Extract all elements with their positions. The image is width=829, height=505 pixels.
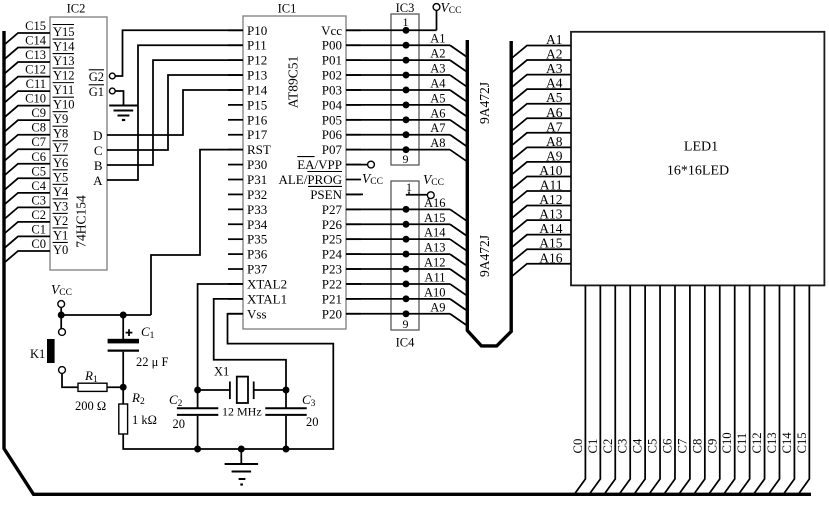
wire row A16 from bus to LED1 — [512, 264, 571, 277]
svg-text:XTAL2: XTAL2 — [247, 276, 287, 291]
IC3 resistor network 9A472J body — [391, 14, 419, 165]
junction crystal right — [283, 387, 290, 394]
IC1 left pin stub P12 — [228, 59, 243, 61]
svg-text:RST: RST — [247, 142, 271, 157]
IC1 right pin stub P27 — [346, 208, 361, 210]
svg-text:1 kΩ: 1 kΩ — [132, 413, 157, 427]
junction C3 bottom — [283, 446, 290, 453]
svg-text:IC2: IC2 — [67, 2, 86, 16]
svg-text:P32: P32 — [247, 187, 267, 202]
wire IC1 P27 through IC4 to row A16 — [346, 208, 450, 210]
svg-text:IC1: IC1 — [278, 2, 297, 16]
Vcc symbol at EA/VPP — [346, 164, 367, 166]
svg-text:A: A — [93, 173, 103, 188]
junction C2 bottom — [194, 446, 201, 453]
svg-text:C7: C7 — [31, 135, 46, 149]
svg-text:Y0: Y0 — [53, 243, 68, 257]
svg-text:LED1: LED1 — [684, 139, 718, 154]
svg-text:G2: G2 — [89, 70, 104, 84]
svg-text:C9: C9 — [31, 106, 46, 120]
IC3 pin dot row A6 — [403, 116, 410, 123]
svg-text:IC4: IC4 — [396, 336, 416, 350]
svg-text:A12: A12 — [539, 192, 562, 207]
wire Vss to ground rail — [228, 314, 334, 449]
svg-text:C15: C15 — [795, 432, 809, 453]
svg-text:A16: A16 — [539, 250, 562, 265]
capacitor C3 — [285, 390, 287, 408]
svg-text:A1: A1 — [430, 32, 445, 46]
IC4 pin dot row A10 — [403, 295, 410, 302]
svg-text:G1: G1 — [89, 85, 104, 99]
IC4 pin dot row A11 — [403, 280, 410, 287]
IC4 pin dot row A15 — [403, 221, 410, 228]
svg-text:200 Ω: 200 Ω — [75, 399, 106, 413]
IC1 right pin stub ALEPROG — [346, 179, 361, 181]
wire IC1 P25 through IC4 to row A14 — [346, 238, 450, 240]
svg-text:P14: P14 — [247, 82, 268, 97]
resistor R1 — [78, 383, 107, 391]
svg-text:16*16LED: 16*16LED — [667, 164, 729, 179]
svg-text:Y1: Y1 — [53, 228, 68, 242]
svg-text:P02: P02 — [322, 68, 342, 83]
svg-text:P27: P27 — [322, 202, 343, 217]
svg-text:A8: A8 — [546, 134, 563, 149]
svg-text:C12: C12 — [25, 63, 46, 77]
svg-text:C5: C5 — [31, 164, 46, 178]
svg-text:Y14: Y14 — [53, 40, 75, 54]
wire C10 from bus to IC2 pin Y10 — [4, 106, 50, 118]
wire IC1 P04 through IC3 to row A5 — [346, 104, 450, 106]
svg-text:Y3: Y3 — [53, 199, 68, 213]
IC4 pin dot row A12 — [403, 266, 410, 273]
svg-text:Y11: Y11 — [53, 83, 74, 97]
wire column C12 from LED1 to bottom bus — [754, 285, 765, 493]
wire IC1 P22 through IC4 to row A11 — [346, 283, 450, 285]
svg-text:C8: C8 — [690, 439, 704, 454]
wire column C1 from LED1 to bottom bus — [590, 285, 601, 493]
svg-text:VCC: VCC — [423, 172, 444, 188]
svg-text:A5: A5 — [430, 91, 445, 105]
svg-text:P25: P25 — [322, 232, 342, 247]
wire C5 from bus to IC2 pin Y5 — [4, 178, 50, 190]
IC3 pin dot row A3 — [403, 72, 410, 79]
wire IC2 B to IC1 — [107, 60, 243, 165]
wire IC1 P02 through IC3 to row A3 — [346, 74, 450, 76]
svg-text:A14: A14 — [539, 221, 562, 236]
wire G2 to IC1 P10 — [115, 30, 243, 76]
wire K1 to R1 — [62, 373, 78, 387]
svg-text:A12: A12 — [424, 256, 446, 270]
junction ground stub — [238, 446, 245, 453]
wire row A7 from bus to LED1 — [512, 133, 571, 146]
svg-text:A4: A4 — [546, 76, 563, 91]
wire slant A14 to bus — [450, 239, 467, 251]
svg-text:P17: P17 — [247, 127, 268, 142]
wire Vcc net: IC1 Vcc pin through IC3 pin1 to Vcc symbol — [346, 29, 437, 31]
wire C11 from bus to IC2 pin Y11 — [4, 91, 50, 103]
IC1 left pin stub P11 — [228, 44, 243, 46]
svg-text:D: D — [93, 128, 102, 143]
wire slant A7 to bus — [450, 135, 467, 147]
junction Vcc/K1/C1 — [58, 312, 65, 319]
wire Vcc node to RST net — [61, 314, 151, 316]
IC1 right pin stub P23 — [346, 268, 361, 270]
IC3 pin dot row A5 — [403, 101, 410, 108]
wire slant A10 to bus — [450, 299, 467, 311]
IC1 right pin stub PSEN — [346, 193, 361, 195]
LED1 16x16 LED matrix body — [571, 32, 824, 286]
svg-text:A11: A11 — [424, 270, 445, 284]
PSEN unconnected stub — [346, 193, 363, 195]
IC1 left pin stub P36 — [228, 253, 243, 255]
IC1 right pin stub P22 — [346, 283, 361, 285]
svg-text:Vss: Vss — [247, 306, 267, 321]
wire slant A3 to bus — [450, 75, 467, 87]
IC1 right pin stub P05 — [346, 119, 361, 121]
svg-text:P13: P13 — [247, 68, 267, 83]
svg-text:C4: C4 — [31, 179, 46, 193]
svg-text:P35: P35 — [247, 232, 267, 247]
wire RST to reset network — [151, 150, 243, 315]
svg-text:Y4: Y4 — [53, 185, 69, 199]
svg-text:C4: C4 — [631, 438, 645, 453]
wire IC4 pin1 to Vcc symbol — [406, 194, 427, 196]
svg-text:A10: A10 — [424, 285, 446, 299]
svg-text:A9: A9 — [546, 148, 563, 163]
svg-text:P15: P15 — [247, 97, 267, 112]
svg-text:20: 20 — [173, 417, 186, 431]
wire C15 from bus to IC2 pin Y15 — [4, 33, 50, 45]
IC1 left pin stub P32 — [228, 193, 243, 195]
svg-text:P23: P23 — [322, 262, 342, 277]
wire column C15 from LED1 to bottom bus — [799, 285, 810, 493]
wire C14 from bus to IC2 pin Y14 — [4, 48, 50, 60]
IC1 left pin stub XTAL1 — [228, 298, 243, 300]
svg-text:C3: C3 — [31, 193, 46, 207]
wire R1 to junction — [107, 386, 123, 388]
svg-text:R1: R1 — [84, 368, 98, 385]
IC1 AT89C51 body — [243, 16, 346, 329]
wire slant A16 to bus — [450, 209, 467, 221]
IC4 pin dot row A14 — [403, 236, 410, 243]
wire column C3 from LED1 to bottom bus — [620, 285, 631, 493]
svg-text:A4: A4 — [430, 76, 446, 90]
svg-text:P07: P07 — [322, 142, 343, 157]
svg-text:P06: P06 — [322, 127, 343, 142]
svg-text:P10: P10 — [247, 23, 267, 38]
IC1 left pin stub P15 — [228, 104, 243, 106]
svg-text:C11: C11 — [735, 433, 749, 454]
wire row A3 from bus to LED1 — [512, 75, 571, 88]
svg-text:C3: C3 — [616, 439, 630, 454]
svg-text:C11: C11 — [26, 77, 46, 91]
wire C4 from bus to IC2 pin Y4 — [4, 193, 50, 205]
IC1 right pin stub P20 — [346, 313, 361, 315]
wire C1 from bus to IC2 pin Y1 — [4, 236, 50, 248]
svg-text:74HC154: 74HC154 — [74, 195, 89, 248]
svg-text:Y12: Y12 — [53, 69, 75, 83]
IC1 right pin stub P04 — [346, 104, 361, 106]
svg-text:P33: P33 — [247, 202, 267, 217]
wire row A5 from bus to LED1 — [512, 104, 571, 117]
C1 polarity plus sign — [126, 332, 133, 334]
svg-text:Y2: Y2 — [53, 214, 68, 228]
svg-text:P30: P30 — [247, 157, 267, 172]
svg-text:P16: P16 — [247, 112, 268, 127]
wire row A10 from bus to LED1 — [512, 176, 571, 189]
wire C0 from bus to IC2 pin Y0 — [4, 251, 50, 263]
wire column C4 from LED1 to bottom bus — [635, 285, 646, 493]
IC1 right pin stub P00 — [346, 44, 361, 46]
crystal X1 12MHz — [198, 389, 230, 391]
IC1 right pin stub P24 — [346, 253, 361, 255]
wire IC2 D to IC1 — [107, 90, 243, 135]
wire C2 from bus to IC2 pin Y2 — [4, 222, 50, 234]
capacitor C1 (electrolytic 22uF) — [122, 315, 124, 339]
wire column C6 from LED1 to bottom bus — [664, 285, 675, 493]
svg-text:A8: A8 — [430, 136, 445, 150]
svg-text:C1: C1 — [141, 324, 155, 341]
IC4 pin dot row A13 — [403, 251, 410, 258]
IC3 pin dot row A4 — [403, 87, 410, 94]
wire row A14 from bus to LED1 — [512, 235, 571, 248]
IC1 left pin stub P35 — [228, 238, 243, 240]
svg-text:P26: P26 — [322, 217, 343, 232]
wire IC1 P23 through IC4 to row A12 — [346, 268, 450, 270]
ground rail wire — [198, 448, 286, 450]
svg-text:P01: P01 — [322, 53, 342, 68]
IC1 right pin stub P26 — [346, 223, 361, 225]
IC1 right pin stub Vcc — [346, 29, 361, 31]
svg-text:Y8: Y8 — [53, 127, 68, 141]
svg-text:A9: A9 — [430, 300, 445, 314]
wire column C2 from LED1 to bottom bus — [605, 285, 616, 493]
wire IC1 P20 through IC4 to row A9 — [346, 313, 450, 315]
svg-text:A5: A5 — [546, 90, 563, 105]
junction crystal left — [194, 387, 201, 394]
svg-text:ALE/PROG: ALE/PROG — [278, 172, 342, 187]
IC1 left pin stub P31 — [228, 179, 243, 181]
svg-text:X1: X1 — [214, 365, 229, 379]
wire IC1 P00 through IC3 to row A1 — [346, 44, 450, 46]
svg-text:Y15: Y15 — [53, 25, 75, 39]
wire slant A12 to bus — [450, 269, 467, 281]
wire row A2 from bus to LED1 — [512, 60, 571, 73]
svg-text:C7: C7 — [675, 439, 689, 454]
svg-text:P24: P24 — [322, 247, 343, 262]
wire slant A5 to bus — [450, 105, 467, 117]
IC2 pin G1 bubble — [109, 88, 115, 94]
svg-text:20: 20 — [306, 415, 319, 429]
wire row A1 from bus to LED1 — [512, 46, 571, 59]
svg-text:EA/VPP: EA/VPP — [297, 157, 342, 172]
svg-text:Y6: Y6 — [53, 156, 68, 170]
IC3 pin dot row A1 — [403, 42, 410, 49]
svg-text:Vcc: Vcc — [321, 23, 342, 38]
wire C7 from bus to IC2 pin Y7 — [4, 149, 50, 161]
wire IC1 P05 through IC3 to row A6 — [346, 119, 450, 121]
wire G1 to ground — [115, 91, 123, 105]
svg-text:C: C — [94, 143, 103, 158]
svg-text:VCC: VCC — [51, 282, 72, 298]
wire row A9 from bus to LED1 — [512, 162, 571, 175]
IC4 pin dot row A16 — [403, 206, 410, 213]
svg-text:P12: P12 — [247, 53, 267, 68]
svg-text:XTAL1: XTAL1 — [247, 291, 287, 306]
wire column C14 from LED1 to bottom bus — [784, 285, 795, 493]
IC1 left pin stub RST — [228, 149, 243, 151]
svg-text:C6: C6 — [31, 150, 46, 164]
svg-text:VCC: VCC — [362, 171, 383, 187]
IC1 left pin stub XTAL2 — [228, 283, 243, 285]
wire slant A8 to bus — [450, 150, 467, 162]
wire row A15 from bus to LED1 — [512, 249, 571, 262]
ground symbol — [240, 449, 242, 464]
junction C1 top — [120, 312, 127, 319]
wire XTAL1 to crystal right node — [214, 299, 286, 390]
svg-text:Y10: Y10 — [53, 98, 75, 112]
wire IC1 P07 through IC3 to row A8 — [346, 149, 450, 151]
svg-text:A13: A13 — [539, 207, 562, 222]
svg-text:C6: C6 — [660, 439, 674, 454]
IC1 left pin stub P30 — [228, 164, 243, 166]
svg-text:AT89C51: AT89C51 — [286, 56, 301, 109]
svg-text:R2: R2 — [131, 390, 145, 407]
IC1 right pin stub P03 — [346, 89, 361, 91]
svg-text:C10: C10 — [720, 432, 734, 453]
IC1 right pin stub P06 — [346, 134, 361, 136]
wire IC1 P06 through IC3 to row A7 — [346, 134, 450, 136]
svg-text:12 MHz: 12 MHz — [222, 405, 262, 419]
svg-text:22 μ F: 22 μ F — [136, 355, 168, 369]
IC1 right pin stub P21 — [346, 298, 361, 300]
wire IC2 C to IC1 — [107, 75, 243, 150]
IC3 pin dot row A8 — [403, 146, 410, 153]
switch K1 — [60, 315, 62, 329]
svg-text:Y5: Y5 — [53, 170, 68, 184]
svg-text:Y9: Y9 — [53, 112, 68, 126]
svg-text:C1: C1 — [31, 222, 46, 236]
wire row A4 from bus to LED1 — [512, 89, 571, 102]
svg-text:P04: P04 — [322, 97, 343, 112]
resistor R2 — [122, 387, 124, 404]
IC4 pin dot row A9 — [403, 310, 410, 317]
IC1 left pin stub P10 — [228, 29, 243, 31]
IC4 resistor network 9A472J body — [391, 181, 419, 330]
wire row A13 from bus to LED1 — [512, 220, 571, 233]
IC1 left pin stub Vss — [228, 313, 243, 315]
svg-text:A15: A15 — [539, 236, 562, 251]
IC3 pin dot row A7 — [403, 131, 410, 138]
svg-text:C13: C13 — [25, 48, 46, 62]
svg-text:C0: C0 — [571, 439, 585, 454]
svg-text:P11: P11 — [247, 38, 267, 53]
wire slant A4 to bus — [450, 90, 467, 102]
wire IC2 A to IC1 — [107, 45, 243, 180]
svg-text:Y7: Y7 — [53, 141, 68, 155]
IC1 left pin stub P14 — [228, 89, 243, 91]
wire row A12 from bus to LED1 — [512, 206, 571, 219]
wire slant A1 to bus — [450, 45, 467, 57]
svg-text:VCC: VCC — [441, 0, 462, 16]
IC1 left pin stub P34 — [228, 223, 243, 225]
wire C13 from bus to IC2 pin Y13 — [4, 62, 50, 74]
wire IC1 P21 through IC4 to row A10 — [346, 298, 450, 300]
wire row A6 from bus to LED1 — [512, 118, 571, 131]
svg-text:P03: P03 — [322, 82, 342, 97]
wire XTAL2 to crystal left node — [198, 284, 243, 390]
Vcc symbol above IC4 pin1 — [427, 192, 434, 199]
wire column C8 from LED1 to bottom bus — [694, 285, 705, 493]
svg-text:A2: A2 — [430, 47, 445, 61]
wire column C13 from LED1 to bottom bus — [769, 285, 780, 493]
svg-text:P37: P37 — [247, 262, 268, 277]
ground for G1 — [109, 105, 137, 107]
IC1 right pin stub P01 — [346, 59, 361, 61]
wire C12 from bus to IC2 pin Y12 — [4, 77, 50, 89]
svg-text:9: 9 — [403, 152, 409, 166]
svg-text:C14: C14 — [25, 34, 47, 48]
svg-text:A2: A2 — [546, 47, 563, 62]
svg-text:9A472J: 9A472J — [477, 82, 492, 124]
svg-text:PSEN: PSEN — [310, 187, 342, 202]
wire slant A11 to bus — [450, 284, 467, 296]
svg-text:A15: A15 — [424, 211, 446, 225]
IC3 pin1 junction — [403, 27, 410, 34]
wire column C11 from LED1 to bottom bus — [739, 285, 750, 493]
svg-text:9: 9 — [403, 317, 409, 331]
svg-text:A11: A11 — [540, 178, 563, 193]
row bus (thick U shape) from resistor networks to LED rows — [467, 40, 511, 346]
wire column C10 from LED1 to bottom bus — [724, 285, 735, 493]
svg-text:P34: P34 — [247, 217, 268, 232]
wire C6 from bus to IC2 pin Y6 — [4, 164, 50, 176]
IC1 right pin stub EAVPP — [346, 164, 361, 166]
svg-text:B: B — [94, 158, 103, 173]
svg-text:A6: A6 — [546, 105, 563, 120]
svg-text:A7: A7 — [430, 121, 445, 135]
svg-text:C12: C12 — [750, 432, 764, 453]
svg-text:P36: P36 — [247, 247, 268, 262]
svg-text:C15: C15 — [25, 19, 46, 33]
svg-text:C8: C8 — [31, 121, 46, 135]
wire column C7 from LED1 to bottom bus — [679, 285, 690, 493]
svg-text:C14: C14 — [780, 432, 794, 454]
svg-text:A6: A6 — [430, 106, 445, 120]
svg-text:C10: C10 — [25, 92, 46, 106]
junction R1/R2/C1 — [120, 384, 127, 391]
svg-text:A13: A13 — [424, 241, 446, 255]
svg-text:P00: P00 — [322, 38, 342, 53]
svg-text:P21: P21 — [322, 291, 342, 306]
wire slant A13 to bus — [450, 254, 467, 266]
svg-text:P31: P31 — [247, 172, 267, 187]
svg-text:C2: C2 — [31, 208, 46, 222]
IC1 left pin stub P13 — [228, 74, 243, 76]
svg-text:C9: C9 — [705, 439, 719, 454]
svg-text:K1: K1 — [30, 347, 45, 361]
svg-text:Y13: Y13 — [53, 54, 75, 68]
IC1 right pin stub P25 — [346, 238, 361, 240]
wire IC1 P24 through IC4 to row A13 — [346, 253, 450, 255]
IC1 left pin stub P17 — [228, 134, 243, 136]
capacitor C2 — [197, 390, 199, 408]
svg-text:A14: A14 — [424, 226, 446, 240]
wire column C0 from LED1 to bottom bus — [575, 285, 586, 493]
IC1 left pin stub P37 — [228, 268, 243, 270]
svg-text:P05: P05 — [322, 112, 342, 127]
wire slant A15 to bus — [450, 224, 467, 236]
